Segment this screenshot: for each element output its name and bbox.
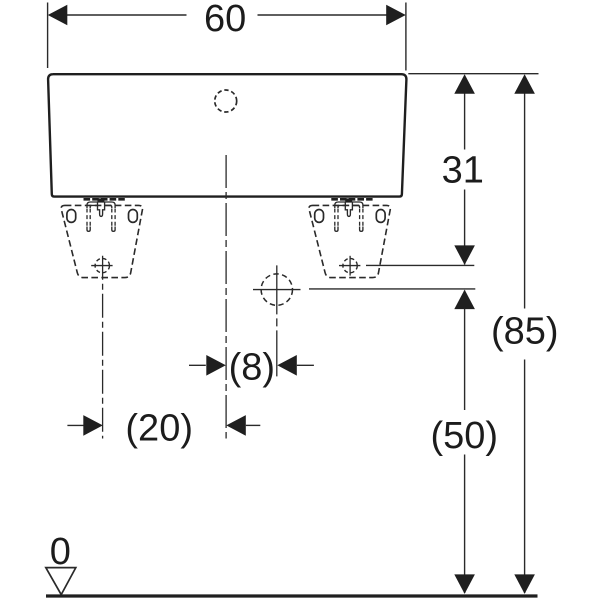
svg-text:(8): (8) <box>229 346 275 388</box>
clamp inner edge right <box>105 205 112 208</box>
dim 31 bottom arrow <box>454 245 475 265</box>
bracket trapezoid dashed outline <box>61 205 142 277</box>
datum triangle <box>46 568 76 595</box>
dim (20) right arrow <box>226 415 246 436</box>
dim (85) top arrow <box>514 74 535 94</box>
trap crosshair horizontal <box>253 289 301 291</box>
basin top reference line <box>408 73 538 75</box>
bracket screw reference line <box>366 264 474 266</box>
dim (8) right arrow <box>277 355 297 376</box>
bracket hanger center tab <box>97 198 104 202</box>
left screw centerline down to (20) <box>102 256 104 439</box>
trap centerline vertical <box>276 265 278 376</box>
clamp left foot <box>87 227 90 232</box>
overflow hole dashed circle <box>215 90 237 112</box>
dim (8) left arrow <box>206 355 226 376</box>
floor line <box>46 594 538 597</box>
clamp leg dashes <box>87 209 115 228</box>
dim 60 left arrow <box>48 5 68 26</box>
dim (85) line lower segment <box>524 360 526 594</box>
dim 31 line lower segment <box>464 190 466 265</box>
dim (50) line lower segment <box>464 455 466 594</box>
right screw short vertical centerline <box>349 256 351 276</box>
dim 60 right extension line <box>405 3 407 71</box>
dim (85) bottom arrow <box>514 574 535 594</box>
svg-text:31: 31 <box>442 149 484 191</box>
dim (20) left tail <box>67 424 83 426</box>
dim (50) line upper segment <box>464 291 466 411</box>
trap level reference line <box>309 288 475 290</box>
dim (50) top arrow <box>454 290 475 310</box>
trap connection dashed circle <box>261 274 292 305</box>
bracket slot right "0" <box>129 210 138 223</box>
dim (20) left arrow <box>83 415 103 436</box>
dim (85) line upper segment <box>524 76 526 309</box>
dim 60 line left segment <box>50 14 187 16</box>
svg-text:(50): (50) <box>431 415 499 457</box>
svg-text:(20): (20) <box>125 407 193 449</box>
dim (8) right tail <box>297 364 314 366</box>
bracket screw dashed circle <box>95 258 109 272</box>
dim 60 right arrow <box>386 5 406 26</box>
right bracket group (mirror) <box>309 198 390 277</box>
dim 31 top arrow <box>454 74 475 94</box>
dim (50) bottom arrow <box>454 574 535 594</box>
bracket slot left "0" <box>67 210 76 223</box>
clamp right foot <box>112 227 115 232</box>
dim (20) right tail <box>246 424 260 426</box>
dim (8) left tail <box>189 364 206 366</box>
bracket screw crosshair horizontal <box>91 265 112 267</box>
dim 31 line upper segment <box>464 76 466 150</box>
dim 60 left extension line <box>47 3 49 69</box>
bracket hanger teeth <box>84 198 125 201</box>
basin centerline <box>225 155 227 439</box>
svg-text:(85): (85) <box>491 311 559 353</box>
basin outline <box>48 74 406 196</box>
clamp inner edge left <box>90 205 97 208</box>
svg-text:60: 60 <box>204 0 246 40</box>
clamp outer arch with center slot <box>87 202 115 216</box>
dim 60 line right segment <box>258 14 405 16</box>
left bracket group <box>61 198 142 277</box>
